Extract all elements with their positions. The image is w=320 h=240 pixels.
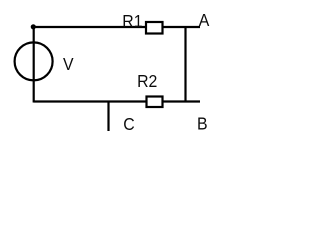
resistor R1 [146, 22, 163, 34]
svg-text:V: V [63, 54, 74, 74]
label A [199, 10, 210, 30]
label V [63, 54, 74, 74]
svg-text:R1: R1 [122, 11, 142, 31]
label R2 [137, 71, 157, 91]
resistor R2 [147, 97, 163, 108]
junction dot [31, 24, 36, 29]
wire stub to node C [107, 102, 109, 132]
wire left vertical through source [33, 27, 35, 103]
label B [197, 114, 208, 134]
svg-text:C: C [123, 114, 134, 134]
svg-text:A: A [199, 10, 210, 30]
svg-text:B: B [197, 114, 208, 134]
wire top from source to node A [34, 26, 201, 28]
voltage source V [15, 42, 53, 80]
wire right vertical joining A and B rails [184, 27, 186, 103]
wire middle from source bottom to node B [34, 100, 201, 102]
label C [123, 114, 134, 134]
svg-text:R2: R2 [137, 71, 157, 91]
label R1 [122, 11, 142, 31]
